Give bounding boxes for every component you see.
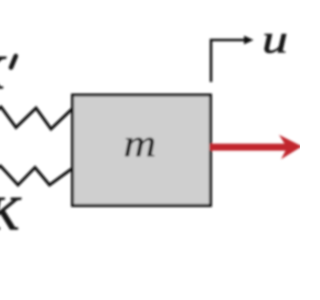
label K' prime mark bbox=[11, 56, 16, 68]
spring K (bottom spring) bbox=[0, 166, 72, 185]
displacement indicator line bbox=[211, 40, 246, 82]
displacement arrowhead bbox=[244, 36, 254, 45]
mass block m bbox=[73, 95, 211, 206]
force arrow F bbox=[210, 135, 303, 160]
svg-text:m: m bbox=[124, 122, 157, 165]
svg-text:K: K bbox=[0, 47, 7, 100]
svg-text:K: K bbox=[0, 188, 22, 241]
spring K' (top spring) bbox=[0, 107, 73, 129]
svg-text:u: u bbox=[262, 18, 288, 62]
